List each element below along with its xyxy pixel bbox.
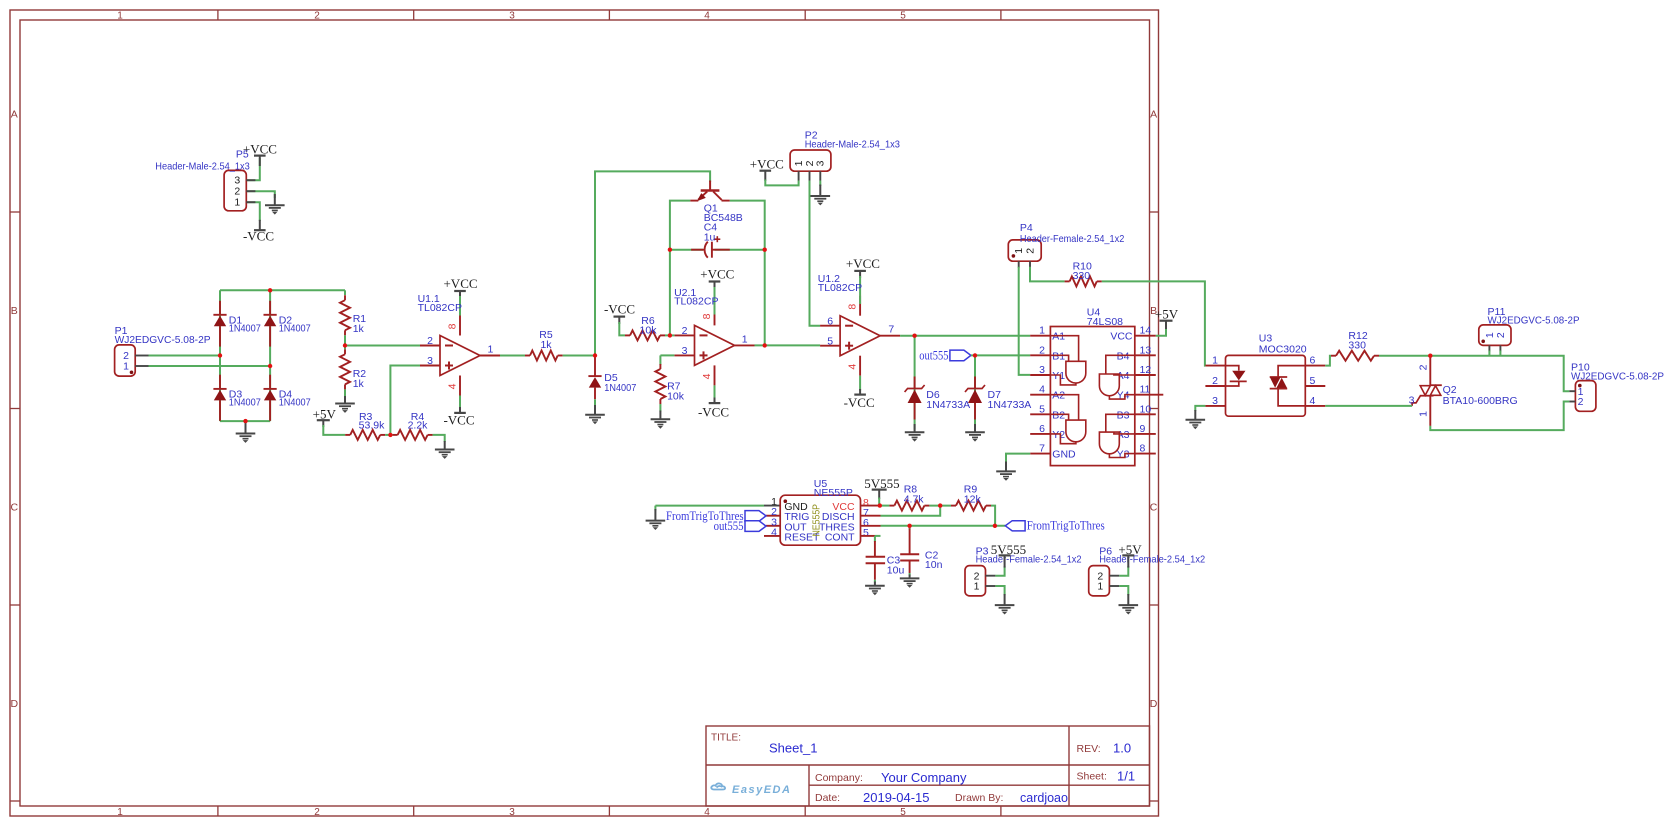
connector P4 Header-Female-2.54_1x2 xyxy=(1008,240,1041,261)
wire R7 to U2.1 pin 3 xyxy=(660,354,674,356)
ground below D5 xyxy=(594,405,596,415)
op-amp U1.1 TL082CP xyxy=(440,336,480,376)
svg-text:Your Company: Your Company xyxy=(881,770,967,785)
svg-text:74LS08: 74LS08 xyxy=(1087,316,1123,328)
connector P1 WJ2EDGVC-5.08-2P xyxy=(115,345,136,376)
wire R1 to R2 xyxy=(344,335,346,349)
svg-text:4: 4 xyxy=(847,364,859,370)
wire U4 pin 14 to +5V xyxy=(1156,328,1166,336)
svg-text:REV:: REV: xyxy=(1077,743,1101,755)
wire feedback up and over to Q1 base xyxy=(595,171,710,355)
svg-text:53.9k: 53.9k xyxy=(359,420,385,432)
U5 right pin stubs xyxy=(861,505,881,507)
wire P11 pin 1 down xyxy=(1488,351,1490,356)
svg-text:2: 2 xyxy=(1417,364,1429,370)
svg-text:B4: B4 xyxy=(1117,350,1130,362)
junction U2.1 output / Q1 loop xyxy=(763,343,767,347)
wire R2 to ground xyxy=(344,389,346,397)
wire bridge top rail to R1 top xyxy=(344,290,346,295)
svg-text:2019-04-15: 2019-04-15 xyxy=(863,790,930,805)
svg-text:5: 5 xyxy=(900,807,906,818)
ground at P3 pin 1 xyxy=(1004,594,1006,605)
zener diode D6 1N4733A xyxy=(914,377,916,389)
svg-text:12k: 12k xyxy=(964,493,982,505)
frame column ticks bottom xyxy=(217,806,219,816)
junction bridge top xyxy=(268,288,272,292)
wire U1.1 output to R5 xyxy=(500,355,525,357)
wire U5 pin 8 to R8 xyxy=(881,505,890,507)
junction THRES / R9 xyxy=(993,524,997,528)
wire -VCC down to R6 xyxy=(619,322,625,335)
wire R3 to R4 junction xyxy=(385,434,392,436)
svg-text:2: 2 xyxy=(1495,332,1507,338)
connector P11 WJ2EDGVC-5.08-2P xyxy=(1479,325,1511,346)
svg-text:CONT: CONT xyxy=(825,531,855,543)
connector P10 WJ2EDGVC-5.08-2P xyxy=(1575,381,1596,412)
svg-text:330: 330 xyxy=(1348,339,1366,351)
junction R5 / D5 / feedback xyxy=(593,353,597,357)
wire U5 pin 1 GND to ground xyxy=(655,505,764,507)
svg-text:TL082CP: TL082CP xyxy=(418,302,462,314)
svg-text:EasyEDA: EasyEDA xyxy=(732,784,791,796)
svg-text:B1: B1 xyxy=(1052,350,1065,362)
svg-text:8: 8 xyxy=(701,313,713,319)
svg-text:1: 1 xyxy=(117,807,123,818)
svg-text:1: 1 xyxy=(974,581,980,593)
resistor R2 1k xyxy=(344,349,346,354)
svg-text:2: 2 xyxy=(682,325,688,337)
U4 AND gate 4 xyxy=(1099,432,1119,454)
wire Q1 emitter to left loop xyxy=(670,201,690,336)
svg-text:5: 5 xyxy=(863,527,869,539)
svg-text:C: C xyxy=(1150,502,1158,514)
wire junction to U1.1 pin 2 xyxy=(345,345,420,347)
capacitor C3 10u xyxy=(874,541,876,556)
svg-text:1: 1 xyxy=(123,361,129,373)
power -VCC at U2.1 xyxy=(714,398,716,404)
wire P4 pin 1 down to U4 Y1 xyxy=(1019,267,1030,375)
wire junction up to U1.1 pin 3 xyxy=(390,366,420,435)
svg-text:1: 1 xyxy=(1212,355,1218,367)
wire R4 to ground xyxy=(433,435,445,442)
svg-text:4.7k: 4.7k xyxy=(904,493,925,505)
svg-text:-VCC: -VCC xyxy=(243,228,274,243)
junction Q2 pin 2 xyxy=(1428,354,1432,358)
wire U5 pin 5 CONT down to C3 xyxy=(875,535,881,537)
svg-text:2: 2 xyxy=(1039,344,1045,356)
svg-text:2: 2 xyxy=(314,807,320,818)
junction R1/R2 to opamp pin2 xyxy=(343,343,347,347)
resistor R5 1k xyxy=(525,355,530,357)
svg-text:Header-Male-2.54_1x3: Header-Male-2.54_1x3 xyxy=(805,139,900,151)
svg-text:2.2k: 2.2k xyxy=(408,420,429,432)
wire P6 pin 1 to ground xyxy=(1119,586,1128,595)
ground at bridge bottom xyxy=(245,421,247,433)
svg-text:9: 9 xyxy=(1140,423,1146,435)
diode D4 1N4007 xyxy=(269,375,271,389)
svg-text:Header-Female-2.54_1x2: Header-Female-2.54_1x2 xyxy=(1020,233,1125,245)
junction 5V555 xyxy=(878,503,882,507)
svg-text:1k: 1k xyxy=(540,339,552,351)
svg-text:Y1: Y1 xyxy=(1052,370,1065,382)
svg-text:12: 12 xyxy=(1140,364,1152,376)
power -VCC at P5 xyxy=(259,220,261,230)
wire +VCC to P2 pin 1 xyxy=(765,180,798,186)
op-amp U2.1 TL082CP xyxy=(695,325,735,365)
svg-text:TL082CP: TL082CP xyxy=(818,282,862,294)
svg-text:2: 2 xyxy=(314,11,320,22)
svg-text:11: 11 xyxy=(1140,384,1151,396)
IC U3 MOC3020 body xyxy=(1226,355,1306,416)
svg-text:2: 2 xyxy=(1212,375,1218,387)
svg-text:+5V: +5V xyxy=(313,406,337,421)
resistor R6 10k xyxy=(625,334,630,336)
wire U4 pin 7 to ground xyxy=(1006,454,1030,463)
net flag out555 at U5 OUT xyxy=(766,525,780,527)
junction THRES / C2 xyxy=(907,524,911,528)
svg-text:NE555P: NE555P xyxy=(811,504,823,537)
ground below D7 xyxy=(974,424,976,432)
svg-text:D: D xyxy=(1150,698,1158,710)
ground at U4 pin 7 xyxy=(1005,462,1007,472)
U4 AND gate 1 xyxy=(1066,361,1086,383)
svg-text:MOC3020: MOC3020 xyxy=(1259,344,1307,356)
svg-text:1: 1 xyxy=(234,197,240,209)
ground below R4 xyxy=(444,441,446,450)
op-amp U1.2 TL082CP xyxy=(840,316,880,356)
power -VCC at U1.2 xyxy=(859,389,861,395)
svg-text:4: 4 xyxy=(771,526,777,538)
ground at P6 pin 1 xyxy=(1127,594,1129,605)
svg-text:6: 6 xyxy=(1310,355,1316,367)
frame row ticks right xyxy=(1150,211,1159,213)
junction P1 pin2 / D1-D3 xyxy=(218,353,222,357)
wire U2.1 output to U1.2 pin 5 xyxy=(755,344,821,346)
capacitor C4 1u polarized xyxy=(691,249,705,251)
wire U1.2 pin 4 to -VCC xyxy=(859,376,861,391)
svg-text:-VCC: -VCC xyxy=(698,404,729,419)
svg-text:1N4007: 1N4007 xyxy=(279,323,311,335)
svg-text:-VCC: -VCC xyxy=(443,412,474,427)
ground below R2 xyxy=(344,396,346,404)
wire D5 to ground xyxy=(594,399,596,406)
wire U3 pin 3 to ground xyxy=(1195,406,1205,411)
svg-text:Y3: Y3 xyxy=(1117,449,1130,461)
svg-text:3: 3 xyxy=(509,11,515,22)
wire +5V to R3 xyxy=(323,425,345,435)
U4 AND gate 3 xyxy=(1099,374,1119,396)
wire C3 to ground xyxy=(874,580,876,583)
svg-text:3: 3 xyxy=(1039,364,1045,376)
wire P3 pin 2 to 5V555 xyxy=(995,566,1004,576)
svg-text:4: 4 xyxy=(447,383,459,389)
svg-text:4: 4 xyxy=(701,373,713,379)
frame column ticks top xyxy=(217,10,219,20)
svg-text:Header-Female-2.54_1x2: Header-Female-2.54_1x2 xyxy=(1099,553,1205,565)
net flag out555 at U1.2 output xyxy=(950,350,971,361)
svg-text:10n: 10n xyxy=(925,559,943,571)
svg-text:1: 1 xyxy=(1417,411,1429,417)
wire U1.1 pin 4 to -VCC xyxy=(459,396,461,410)
wire R8 to R9 xyxy=(929,505,951,507)
wire R7 top xyxy=(659,355,661,365)
wire Q2 junction to P10 pin 1 xyxy=(1430,356,1569,392)
wire +VCC to U1.1 pin 8 xyxy=(459,296,461,316)
net flag FromTrigToThres at U5 TRIG xyxy=(766,515,780,517)
resistor R8 4.7k xyxy=(889,505,894,507)
svg-text:WJ2EDGVC-5.08-2P: WJ2EDGVC-5.08-2P xyxy=(1571,370,1664,382)
svg-text:1N4733A: 1N4733A xyxy=(988,399,1032,411)
wire U5 pin 7 DISCH up to junction xyxy=(881,506,941,516)
svg-text:330: 330 xyxy=(1073,270,1091,282)
U3 internal photo-triac xyxy=(1278,366,1305,377)
wire U5 pin 6 THRES to flag xyxy=(881,525,1006,527)
wire R7 to ground xyxy=(659,404,661,412)
svg-text:3: 3 xyxy=(509,807,515,818)
svg-text:3: 3 xyxy=(1409,394,1415,406)
wire R10 to U3 pin 1 xyxy=(1102,281,1206,365)
capacitor C2 10n xyxy=(909,526,911,530)
wire R9 down to THRES row xyxy=(991,506,995,526)
resistor R1 1k xyxy=(344,295,346,300)
svg-text:3: 3 xyxy=(1212,395,1218,407)
U3 internal LED xyxy=(1226,366,1239,371)
wire bridge right vertical xyxy=(269,290,271,421)
ground below C2 xyxy=(909,575,911,579)
power -VCC at U1.1 xyxy=(459,407,461,413)
wire bridge top rail xyxy=(220,289,345,291)
connector P6 Header-Female-2.54_1x2 xyxy=(1089,566,1110,596)
svg-text:7: 7 xyxy=(1039,443,1045,455)
svg-text:4: 4 xyxy=(704,807,710,818)
resistor R7 10k xyxy=(659,364,661,369)
svg-text:out555: out555 xyxy=(714,519,744,533)
wire overlap U1.2 pin 8 xyxy=(859,296,861,304)
ground at U5 pin 1 xyxy=(654,509,656,521)
wire P3 pin 1 to ground xyxy=(995,586,1004,595)
svg-text:Y2: Y2 xyxy=(1052,429,1065,441)
svg-text:10: 10 xyxy=(1140,403,1152,415)
svg-text:1: 1 xyxy=(1039,325,1045,337)
svg-text:1u: 1u xyxy=(704,231,716,243)
junction R6 / loop / pin2 xyxy=(668,333,672,337)
svg-text:10k: 10k xyxy=(640,325,658,337)
junction bridge bottom ground tap xyxy=(243,419,247,423)
svg-text:B: B xyxy=(11,305,18,317)
svg-text:Sheet_1: Sheet_1 xyxy=(769,741,817,756)
svg-text:8: 8 xyxy=(1140,443,1146,455)
svg-text:+VCC: +VCC xyxy=(750,157,784,172)
wire Q2 pin 1 to P10 pin 2 xyxy=(1430,402,1569,431)
wire bridge left vertical xyxy=(219,290,221,421)
svg-text:6: 6 xyxy=(1039,423,1045,435)
resistor R4 2.2k xyxy=(393,434,398,436)
net flag FromTrigToThres right xyxy=(1005,521,1025,531)
U4 AND gate 2 xyxy=(1066,420,1086,442)
wire U2.1 pin 4 to -VCC xyxy=(714,385,716,399)
svg-text:8: 8 xyxy=(847,304,859,310)
junction C4 right xyxy=(763,248,767,252)
svg-text:1: 1 xyxy=(742,333,748,345)
svg-text:4: 4 xyxy=(704,11,710,22)
ground at P2 pin 3 xyxy=(819,185,821,197)
U4 right pins 14-8 xyxy=(1135,335,1156,337)
svg-text:+VCC: +VCC xyxy=(700,266,734,281)
ground at U3 pin 3 xyxy=(1194,410,1196,420)
svg-text:WJ2EDGVC-5.08-2P: WJ2EDGVC-5.08-2P xyxy=(115,334,211,346)
diode D5 1N4007 xyxy=(594,356,596,376)
wire U3 pin 4 to Q2 gate xyxy=(1325,405,1412,407)
svg-text:Header-Male-2.54_1x3: Header-Male-2.54_1x3 xyxy=(155,161,250,173)
wire U3 pin 6 to R12 xyxy=(1325,356,1331,366)
junction C4 left xyxy=(668,248,672,252)
svg-text:NE555P: NE555P xyxy=(814,487,853,499)
svg-text:-VCC: -VCC xyxy=(604,301,635,316)
diode D3 1N4007 xyxy=(219,375,221,389)
junction out555 / D7 xyxy=(973,353,977,357)
wire R6 to U2.1 pin 2 xyxy=(665,334,674,336)
zener diode D7 1N4733A xyxy=(974,377,976,389)
U4 left pins 1-7 xyxy=(1030,335,1050,337)
wire P5 pin2 to ground xyxy=(246,191,274,198)
svg-text:3: 3 xyxy=(427,355,433,367)
resistor R9 12k xyxy=(951,505,956,507)
wire Q1 collector to right loop xyxy=(730,201,765,346)
svg-text:1: 1 xyxy=(117,11,123,22)
diode D1 1N4007 xyxy=(219,301,221,315)
resistor R10 330 xyxy=(1065,280,1070,282)
svg-text:-VCC: -VCC xyxy=(844,395,875,410)
svg-text:1: 1 xyxy=(1013,248,1025,254)
svg-text:FromTrigToThres: FromTrigToThres xyxy=(1027,518,1105,532)
svg-text:2: 2 xyxy=(1024,248,1036,254)
wire P1 pin2 to bridge left xyxy=(149,355,221,357)
svg-text:C: C xyxy=(11,502,19,514)
diode D2 1N4007 xyxy=(269,301,271,315)
svg-text:TITLE:: TITLE: xyxy=(711,733,741,744)
svg-text:2: 2 xyxy=(1578,396,1584,408)
ground below D6 xyxy=(914,424,916,432)
svg-text:TL082CP: TL082CP xyxy=(674,296,718,308)
svg-text:1k: 1k xyxy=(353,323,365,335)
transistor Q1 BC548B xyxy=(709,181,711,191)
svg-text:out555: out555 xyxy=(919,348,948,362)
U5 pin 4 stub xyxy=(764,535,780,537)
svg-text:Company:: Company: xyxy=(815,772,863,784)
wire P5 pin1 to -VCC xyxy=(246,202,259,221)
wire +VCC to U2.1 pin 8 xyxy=(714,287,716,305)
wire P6 pin 2 to +5V xyxy=(1119,566,1128,576)
svg-text:A1: A1 xyxy=(1052,331,1065,343)
connector P5 Header-Male-2.54_1x3 xyxy=(224,170,246,210)
svg-text:14: 14 xyxy=(1140,325,1152,337)
svg-text:A: A xyxy=(11,109,18,121)
wire P11 pin 2 down xyxy=(1499,351,1501,356)
ground below C3 xyxy=(874,582,876,586)
wire R5 to junction xyxy=(563,355,595,357)
svg-text:5: 5 xyxy=(827,335,833,347)
junction P1 pin1 / D2-D4 xyxy=(268,364,272,368)
svg-text:1N4007: 1N4007 xyxy=(229,323,261,335)
IC U5 NE555P body xyxy=(780,495,860,545)
resistor R3 53.9k xyxy=(345,434,350,436)
svg-text:Date:: Date: xyxy=(815,792,840,804)
svg-text:1: 1 xyxy=(488,343,494,355)
svg-text:4: 4 xyxy=(1310,395,1316,407)
triac Q2 BTA10-600BRG xyxy=(1429,356,1431,386)
connector P3 Header-Female-2.54_1x2 xyxy=(965,566,986,596)
svg-text:1N4007: 1N4007 xyxy=(279,397,311,409)
svg-text:P5: P5 xyxy=(236,149,249,161)
wire +VCC to U1.2 pin 8 xyxy=(859,276,861,296)
EasyEDA logo xyxy=(711,783,725,789)
svg-text:D: D xyxy=(11,698,19,710)
wire C2 to ground xyxy=(909,573,911,576)
junction U1.2 out / D6 xyxy=(912,334,916,338)
svg-text:5: 5 xyxy=(1310,375,1316,387)
wire overlap U2.1 pin 8 xyxy=(714,305,716,314)
svg-text:7: 7 xyxy=(888,324,894,336)
svg-text:8: 8 xyxy=(447,323,459,329)
svg-text:5: 5 xyxy=(1039,403,1045,415)
wire P4 pin 2 to R10 xyxy=(1030,267,1065,282)
svg-text:A2: A2 xyxy=(1052,390,1065,402)
svg-text:+5V: +5V xyxy=(1155,306,1179,321)
svg-text:2: 2 xyxy=(427,335,433,347)
svg-text:1N4733A: 1N4733A xyxy=(926,399,970,411)
svg-text:1/1: 1/1 xyxy=(1117,768,1135,783)
svg-text:BTA10-600BRG: BTA10-600BRG xyxy=(1443,395,1518,407)
svg-text:1N4007: 1N4007 xyxy=(604,382,636,394)
svg-text:VCC: VCC xyxy=(1110,331,1133,343)
svg-text:6: 6 xyxy=(827,315,833,327)
wire P5 pin3 to +VCC xyxy=(246,158,259,180)
ground below R7 xyxy=(659,411,661,420)
junction R8/R9/DISCH xyxy=(938,503,942,507)
wire C4 row xyxy=(670,249,703,251)
svg-text:1k: 1k xyxy=(353,378,365,390)
IC U4 74LS08 body xyxy=(1050,327,1134,466)
resistor R12 330 xyxy=(1331,355,1336,357)
wire R12 to Q2 junction xyxy=(1379,355,1430,357)
svg-text:Sheet:: Sheet: xyxy=(1077,771,1107,783)
wire P2 pin 2 down to U1.2 pin 6 xyxy=(810,181,821,326)
svg-text:5: 5 xyxy=(900,11,906,22)
wire P1 pin1 to bridge right xyxy=(149,365,271,367)
wire D6 branch down xyxy=(914,336,916,430)
wire P2 pin 3 to ground xyxy=(819,181,821,187)
U3 pins xyxy=(1205,365,1225,367)
svg-text:WJ2EDGVC-5.08-2P: WJ2EDGVC-5.08-2P xyxy=(1488,315,1580,327)
wire U1.2 output to U4 pin 1 xyxy=(900,335,1030,337)
svg-text:Drawn By:: Drawn By: xyxy=(955,792,1003,804)
title block frame xyxy=(706,726,1150,806)
svg-text:+VCC: +VCC xyxy=(443,276,477,291)
svg-text:4: 4 xyxy=(1039,384,1045,396)
sheet frame inner border xyxy=(20,20,1150,806)
svg-text:10u: 10u xyxy=(887,564,905,576)
junction R3/R4 xyxy=(388,433,392,437)
svg-text:3: 3 xyxy=(815,160,827,166)
connector P2 Header-Male-2.54_1x3 xyxy=(790,150,831,171)
svg-text:13: 13 xyxy=(1140,344,1152,356)
svg-text:A: A xyxy=(1150,109,1157,121)
svg-text:1N4007: 1N4007 xyxy=(229,397,261,409)
svg-text:1.0: 1.0 xyxy=(1113,741,1131,756)
ground at P5 pin2 xyxy=(274,194,276,205)
svg-text:B3: B3 xyxy=(1117,409,1130,421)
svg-text:GND: GND xyxy=(1052,449,1076,461)
